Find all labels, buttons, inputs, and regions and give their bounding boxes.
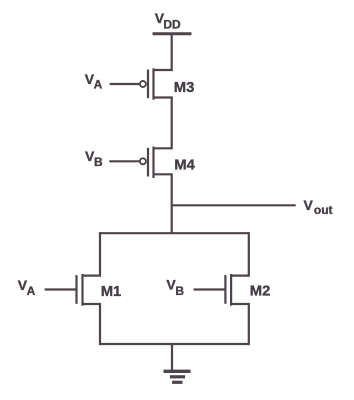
svg-text:M2: M2: [250, 284, 271, 300]
svg-text:B: B: [94, 155, 103, 169]
svg-text:M3: M3: [174, 80, 195, 96]
svg-text:out: out: [314, 203, 333, 217]
svg-text:V: V: [304, 197, 314, 213]
svg-text:M1: M1: [101, 284, 122, 300]
svg-text:A: A: [27, 284, 36, 298]
svg-text:A: A: [94, 78, 103, 92]
svg-text:B: B: [175, 284, 184, 298]
svg-text:DD: DD: [163, 17, 181, 31]
svg-text:M4: M4: [174, 157, 195, 173]
